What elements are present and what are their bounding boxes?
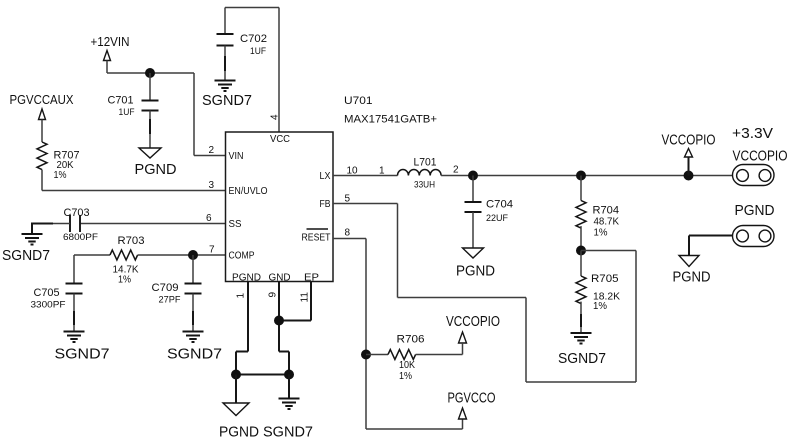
capacitor C705 bbox=[31, 255, 83, 332]
ground SGND7 (left of C703) bbox=[2, 234, 50, 264]
node junction GND / EP bbox=[274, 316, 284, 326]
svg-text:1%: 1% bbox=[54, 170, 67, 181]
wire bottom ground tie bbox=[236, 374, 289, 376]
wire PGND pin 1 down bbox=[236, 282, 248, 375]
svg-text:SGND7: SGND7 bbox=[167, 347, 222, 363]
svg-text:C703: C703 bbox=[64, 207, 90, 219]
resistor R703 bbox=[74, 235, 226, 286]
svg-text:SGND7: SGND7 bbox=[558, 351, 606, 367]
svg-text:10K: 10K bbox=[399, 360, 415, 371]
svg-text:PGND: PGND bbox=[673, 270, 711, 286]
svg-text:C701: C701 bbox=[108, 95, 134, 107]
wire EP pin 11 to GND bbox=[279, 282, 311, 321]
wire LX pin to inductor bbox=[333, 175, 398, 177]
net label PGVCCAUX bbox=[10, 92, 74, 120]
wire GND pin 9 down bbox=[279, 282, 289, 375]
svg-text:VCCOPIO: VCCOPIO bbox=[662, 133, 716, 149]
svg-text:U701: U701 bbox=[344, 95, 373, 107]
svg-text:LX: LX bbox=[320, 171, 331, 182]
svg-text:6800PF: 6800PF bbox=[63, 232, 98, 243]
svg-text:VCCOPIO: VCCOPIO bbox=[733, 149, 788, 165]
svg-text:33UH: 33UH bbox=[414, 180, 435, 191]
ground PGND (under C704) bbox=[456, 248, 495, 280]
svg-text:6: 6 bbox=[206, 213, 212, 224]
resistor R704 bbox=[576, 176, 619, 251]
capacitor C709 bbox=[152, 255, 202, 332]
wire FB net: pin 5 to R704/R705 divider bbox=[333, 204, 636, 383]
svg-text:2: 2 bbox=[453, 165, 459, 176]
svg-text:8: 8 bbox=[345, 228, 351, 239]
svg-text:MAX17541GATB+: MAX17541GATB+ bbox=[344, 114, 437, 126]
svg-text:R704: R704 bbox=[593, 205, 620, 217]
resistor R705 bbox=[576, 251, 620, 334]
svg-text:PGND: PGND bbox=[135, 162, 177, 178]
svg-text:FB: FB bbox=[320, 199, 331, 210]
svg-text:48.7K: 48.7K bbox=[594, 217, 620, 228]
connector PGND (2-pin) bbox=[733, 226, 775, 247]
node junction PGND bottom bbox=[231, 370, 241, 380]
svg-text:SGND7: SGND7 bbox=[55, 347, 110, 363]
svg-text:PGVCCAUX: PGVCCAUX bbox=[10, 92, 74, 107]
ground PGND (right) bbox=[673, 256, 711, 286]
svg-text:VIN: VIN bbox=[229, 151, 244, 162]
svg-text:PGND: PGND bbox=[232, 273, 261, 284]
wire PGND connector to ground arrow bbox=[689, 236, 733, 256]
node junction COMP / R703 / C709 bbox=[188, 250, 198, 260]
svg-text:COMP: COMP bbox=[229, 251, 255, 262]
svg-text:11: 11 bbox=[300, 292, 311, 303]
svg-text:2: 2 bbox=[209, 145, 215, 156]
svg-text:RESET: RESET bbox=[302, 233, 331, 244]
node junction RESET net / R706 bbox=[361, 350, 371, 360]
ground SGND7 (under C705) bbox=[55, 332, 110, 363]
capacitor C702 bbox=[217, 8, 268, 81]
svg-text:3300PF: 3300PF bbox=[31, 300, 66, 311]
svg-text:27PF: 27PF bbox=[159, 295, 181, 306]
node junction rail / VCCOPIO arrow bbox=[684, 171, 694, 181]
svg-text:SGND7: SGND7 bbox=[263, 425, 313, 438]
node junction +12VIN / C701 bbox=[145, 68, 155, 78]
svg-text:SGND7: SGND7 bbox=[202, 93, 252, 109]
svg-text:1UF: 1UF bbox=[250, 46, 266, 57]
svg-text:7: 7 bbox=[209, 245, 215, 256]
svg-text:+12VIN: +12VIN bbox=[91, 34, 130, 49]
svg-text:SS: SS bbox=[229, 219, 242, 230]
svg-text:3: 3 bbox=[209, 180, 215, 191]
svg-text:PGND: PGND bbox=[735, 203, 775, 219]
capacitor C703 bbox=[32, 207, 226, 243]
net label VCCOPIO (rail arrow) bbox=[662, 133, 716, 176]
resistor R706 bbox=[366, 334, 463, 383]
net label VCCOPIO (at R706) bbox=[446, 314, 500, 355]
svg-text:4: 4 bbox=[270, 114, 281, 120]
wire +12VIN net: arrow stem, horizontal to VIN corner, down to VIN pin bbox=[107, 61, 226, 156]
ground SGND7 (under R705) bbox=[558, 333, 606, 367]
node junction R704 / R705 / FB net bbox=[576, 246, 586, 256]
wire RESET net: pin 8 down to R706 and PGVCCO bbox=[333, 239, 463, 430]
wire EN/UVLO net bbox=[42, 190, 226, 192]
svg-text:R703: R703 bbox=[118, 235, 145, 247]
node junction rail / C704 bbox=[468, 171, 478, 181]
net label PGVCCO bbox=[448, 391, 496, 420]
svg-text:PGVCCO: PGVCCO bbox=[448, 391, 496, 407]
svg-text:C709: C709 bbox=[152, 282, 179, 294]
net label +12VIN bbox=[91, 34, 130, 61]
node junction rail / R704 bbox=[576, 171, 586, 181]
svg-text:1: 1 bbox=[379, 166, 385, 177]
svg-text:1%: 1% bbox=[593, 301, 607, 312]
ground SGND7 (under C702) bbox=[202, 81, 252, 110]
svg-text:1%: 1% bbox=[118, 275, 131, 286]
svg-text:9: 9 bbox=[268, 292, 279, 298]
svg-text:PGND: PGND bbox=[456, 264, 495, 280]
svg-text:VCC: VCC bbox=[270, 134, 290, 145]
ground PGND (under C701) bbox=[135, 148, 177, 178]
node junction SGND7 bottom bbox=[284, 370, 294, 380]
inductor L701 33UH bbox=[398, 157, 442, 191]
svg-text:1: 1 bbox=[236, 293, 247, 299]
connector VCCOPIO (2-pin) bbox=[733, 165, 775, 186]
ground PGND (bottom) bbox=[219, 375, 259, 438]
ground SGND7 (bottom) bbox=[263, 375, 313, 438]
svg-text:1%: 1% bbox=[594, 228, 608, 239]
op-amp U701 MAX17541GATB+ (IC body) bbox=[226, 95, 438, 284]
svg-text:L701: L701 bbox=[414, 157, 437, 169]
svg-text:C702: C702 bbox=[240, 33, 267, 45]
capacitor C701 bbox=[108, 73, 159, 148]
svg-text:22UF: 22UF bbox=[486, 213, 508, 224]
svg-text:R706: R706 bbox=[397, 334, 425, 346]
wire C702 top to VCC pin 4 bbox=[225, 8, 279, 133]
svg-text:C705: C705 bbox=[34, 287, 60, 299]
svg-text:C704: C704 bbox=[486, 199, 513, 211]
svg-text:+3.3V: +3.3V bbox=[732, 126, 773, 142]
resistor R707 bbox=[37, 120, 80, 191]
capacitor C704 bbox=[465, 176, 514, 249]
ground SGND7 (under C709) bbox=[167, 332, 222, 363]
svg-text:SGND7: SGND7 bbox=[2, 248, 50, 264]
svg-text:R705: R705 bbox=[591, 273, 619, 285]
svg-text:1%: 1% bbox=[399, 371, 412, 382]
svg-text:1UF: 1UF bbox=[119, 107, 135, 118]
wire output rail bbox=[441, 175, 732, 177]
svg-text:EN/UVLO: EN/UVLO bbox=[229, 186, 268, 197]
svg-text:VCCOPIO: VCCOPIO bbox=[446, 314, 500, 330]
svg-text:PGND: PGND bbox=[219, 425, 259, 438]
